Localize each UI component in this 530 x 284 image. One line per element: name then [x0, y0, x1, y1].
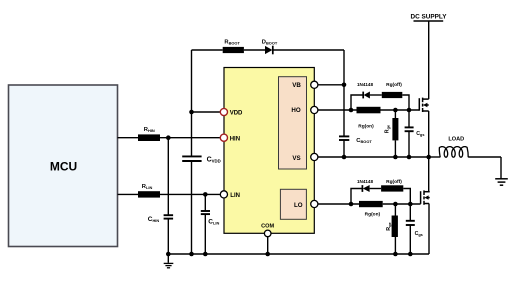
svg-text:Rg(on): Rg(on)	[365, 211, 381, 217]
svg-text:Rg(on): Rg(on)	[358, 123, 374, 129]
svg-text:1N4148: 1N4148	[357, 179, 374, 184]
svg-text:Rg(off): Rg(off)	[386, 82, 402, 88]
svg-text:LOAD: LOAD	[448, 136, 464, 142]
svg-text:COM: COM	[261, 223, 274, 229]
svg-text:DC SUPPLY: DC SUPPLY	[411, 14, 448, 21]
svg-text:1N4148: 1N4148	[357, 82, 374, 87]
svg-text:LO: LO	[294, 202, 303, 209]
svg-text:RBOOT: RBOOT	[224, 39, 240, 45]
svg-text:RHIN: RHIN	[144, 127, 155, 133]
svg-text:Rge: Rge	[386, 221, 392, 230]
svg-text:CHIN: CHIN	[148, 216, 160, 223]
svg-text:Rg(off): Rg(off)	[386, 179, 402, 185]
svg-text:HO: HO	[291, 107, 300, 114]
svg-text:RLIN: RLIN	[142, 184, 153, 190]
svg-text:VS: VS	[292, 155, 300, 162]
svg-text:LIN: LIN	[230, 193, 240, 199]
svg-text:VB: VB	[292, 82, 301, 89]
svg-text:HIN: HIN	[230, 136, 240, 142]
svg-text:CBOOT: CBOOT	[356, 138, 372, 144]
svg-text:DBOOT: DBOOT	[262, 39, 278, 45]
svg-text:MCU: MCU	[50, 160, 77, 174]
svg-text:CLIN: CLIN	[208, 219, 219, 226]
svg-text:Rge: Rge	[384, 124, 390, 133]
svg-text:CVDD: CVDD	[207, 157, 221, 164]
svg-text:VDD: VDD	[230, 110, 243, 116]
